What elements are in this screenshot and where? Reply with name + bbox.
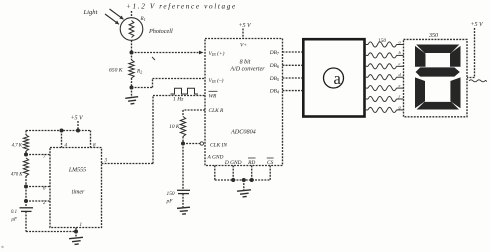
wire +5V rail of 555 bbox=[26, 130, 91, 132]
svg-text:CLK R: CLK R bbox=[209, 108, 225, 114]
svg-text:µF: µF bbox=[11, 218, 17, 223]
svg-text:10 K: 10 K bbox=[169, 124, 180, 130]
capacitor 0.1uF bbox=[25, 201, 27, 208]
junction pins7 node bbox=[24, 153, 28, 157]
wire A GND pin stub bbox=[214, 166, 216, 181]
wire D GND pin stub bbox=[232, 166, 234, 181]
svg-text:V+: V+ bbox=[240, 43, 247, 49]
wire +5V to display common bbox=[474, 28, 476, 78]
svg-text:VIN (+): VIN (+) bbox=[209, 50, 225, 57]
svg-text:D GND: D GND bbox=[224, 160, 242, 166]
wire DB7 to decoder bbox=[283, 51, 304, 53]
photocell R1 bbox=[120, 18, 143, 41]
resistor 4.7K bbox=[25, 131, 27, 136]
A/D converter U2 ADC0804 box bbox=[205, 39, 283, 166]
resistor segment a bbox=[365, 44, 369, 46]
node B junction bbox=[130, 86, 134, 90]
svg-text:R1: R1 bbox=[140, 16, 146, 22]
resistor segment g bbox=[365, 109, 369, 111]
wire pin1 stub bbox=[75, 228, 77, 232]
resistor segment f bbox=[365, 98, 369, 100]
seven segment display box bbox=[404, 39, 468, 116]
svg-text:A/D converter: A/D converter bbox=[229, 67, 265, 73]
light arrow 2 bbox=[105, 14, 119, 24]
svg-text:e: e bbox=[399, 83, 401, 88]
wire +5V stem 555 bbox=[77, 121, 79, 131]
svg-text:DB4: DB4 bbox=[269, 88, 279, 94]
wire node A to VIN+ bbox=[132, 52, 200, 54]
resistor segment b bbox=[365, 54, 369, 56]
wire reference voltage stem bbox=[131, 11, 133, 18]
svg-text:RD: RD bbox=[247, 160, 255, 166]
svg-text:R2: R2 bbox=[136, 69, 142, 75]
resistor segment c bbox=[365, 65, 369, 67]
wire DB6 to decoder bbox=[283, 64, 304, 66]
resistor 10K bbox=[180, 117, 185, 137]
wire cap to bottom rail bbox=[25, 211, 27, 231]
svg-text:DB7: DB7 bbox=[269, 50, 280, 56]
squiggle mark bbox=[469, 80, 487, 82]
ground below ADC bbox=[243, 180, 245, 190]
wire to pin 7 bbox=[26, 154, 50, 156]
wire node down bbox=[25, 187, 27, 202]
svg-text:WR: WR bbox=[209, 94, 217, 100]
svg-text:4.7 K: 4.7 K bbox=[12, 144, 23, 149]
timer U1 LM555 box bbox=[50, 148, 102, 228]
svg-text:470 K: 470 K bbox=[11, 173, 23, 178]
resistor 470K bbox=[23, 158, 28, 176]
svg-text:+5 V: +5 V bbox=[239, 23, 253, 29]
seven segment digit 8 bbox=[416, 45, 459, 54]
svg-text:A GND: A GND bbox=[207, 155, 224, 161]
svg-text:timer: timer bbox=[72, 190, 85, 196]
svg-text:650 K: 650 K bbox=[109, 68, 123, 74]
svg-text:+5 V: +5 V bbox=[71, 116, 85, 122]
ground below 150pF bbox=[182, 194, 184, 208]
light arrow 1 bbox=[110, 9, 124, 19]
wire pin3 output to WR bbox=[102, 163, 154, 165]
svg-text:ADC0804: ADC0804 bbox=[230, 129, 256, 136]
resistor segment e bbox=[365, 87, 369, 89]
svg-text:a: a bbox=[334, 69, 342, 88]
wire CLK node to CLK IN bbox=[183, 143, 200, 145]
wire node B to VIN- bbox=[132, 87, 153, 89]
wire CS pin stub bbox=[269, 166, 271, 181]
decoder driver block a bbox=[303, 39, 364, 116]
svg-text:DB6: DB6 bbox=[269, 63, 280, 69]
svg-text:150: 150 bbox=[378, 38, 386, 44]
svg-text:c: c bbox=[399, 61, 401, 66]
wire photocell to node A bbox=[131, 40, 133, 52]
svg-text:LM555: LM555 bbox=[68, 168, 86, 174]
junction ground node 555 bbox=[74, 230, 78, 234]
svg-text:DB5: DB5 bbox=[269, 76, 279, 82]
wire to pin 6 bbox=[26, 186, 50, 188]
ground below R2 bbox=[131, 88, 133, 98]
wire DB5 to decoder bbox=[283, 77, 304, 79]
wire pin4 stub bbox=[61, 131, 63, 148]
clock waveform symbol bbox=[171, 88, 199, 94]
svg-text:150: 150 bbox=[167, 191, 175, 197]
scan speck bbox=[1, 246, 3, 248]
svg-text:VIN (–): VIN (–) bbox=[209, 77, 224, 84]
svg-text:0.1: 0.1 bbox=[11, 210, 17, 215]
wire RD pin stub bbox=[251, 166, 253, 181]
svg-text:+5 V: +5 V bbox=[471, 22, 485, 28]
svg-text:CS: CS bbox=[267, 160, 274, 166]
junction pin2 node bbox=[24, 199, 28, 203]
svg-text:Photocell: Photocell bbox=[148, 28, 173, 35]
node A junction bbox=[130, 51, 134, 55]
wire ground rail of ADC bbox=[215, 179, 270, 181]
wire pin8 stub bbox=[90, 131, 92, 148]
svg-text:Light: Light bbox=[83, 9, 98, 16]
ground below 555 bbox=[75, 232, 77, 238]
svg-text:8 bit: 8 bit bbox=[240, 60, 251, 66]
svg-text:+1.2 V reference voltage: +1.2 V reference voltage bbox=[126, 3, 237, 11]
capacitor 150 pF bbox=[182, 144, 184, 191]
junction pin6 node bbox=[24, 185, 28, 189]
resistor R2 650K bbox=[129, 60, 134, 78]
junction CLK node bbox=[181, 142, 185, 146]
svg-text:350: 350 bbox=[428, 33, 438, 39]
svg-text:pF: pF bbox=[166, 198, 174, 204]
wire CLK R to resistor bbox=[183, 109, 205, 111]
svg-text:CLK IN: CLK IN bbox=[210, 143, 227, 149]
svg-text:1 Hz: 1 Hz bbox=[173, 97, 184, 103]
resistor segment d bbox=[365, 76, 369, 78]
wire DB4 to decoder bbox=[283, 90, 304, 92]
wire +5V stem ADC bbox=[242, 29, 244, 39]
wire to pin 2 bbox=[26, 200, 50, 202]
